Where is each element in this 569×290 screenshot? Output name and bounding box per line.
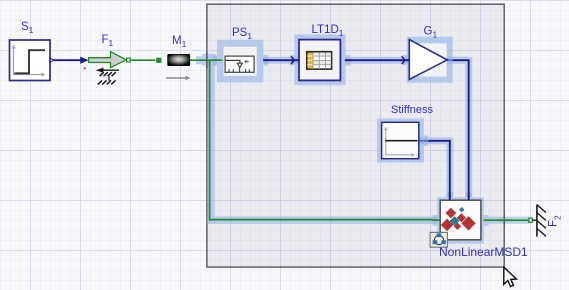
F2 port bracket xyxy=(529,218,532,222)
stub to wall xyxy=(532,219,537,221)
LT1D1 table icon xyxy=(307,52,332,69)
label PS1 xyxy=(232,27,252,41)
mouse cursor xyxy=(504,267,517,286)
lookup table LT1D1 block xyxy=(299,40,340,81)
label S1 xyxy=(21,21,34,35)
position sensor PS1 icon xyxy=(225,56,254,72)
wire: G1 output down to NonLinearMSD1 top-right port (signal) xyxy=(447,60,469,200)
NonLinearMSD1 diamond icon xyxy=(441,207,476,231)
mass M1 xyxy=(168,54,190,65)
wire overdraw at port tabs xyxy=(210,56,489,220)
wire glow: G1 down to NonLinearMSD1 xyxy=(447,57,469,197)
F1 support ground xyxy=(96,68,119,85)
wire: branch junction down and right to NonLinearMSD1 left port xyxy=(210,60,438,219)
position sensor PS1 selection highlight xyxy=(212,40,268,83)
label Stiffness xyxy=(391,104,433,116)
M1 motion arrow xyxy=(166,76,191,81)
Stiffness constant block selection highlight xyxy=(377,119,429,163)
wire glow: NonLinearMSD1 to F2 wall xyxy=(488,217,530,224)
label M1 xyxy=(172,35,187,49)
M1 left flange port xyxy=(156,58,161,63)
wire glow: LT1D1 to G1 xyxy=(345,57,409,64)
S1 output port xyxy=(50,58,54,62)
svg-text:NonLinearMSD1: NonLinearMSD1 xyxy=(439,245,528,259)
label F2 (rotated) xyxy=(548,215,563,227)
fixed wall F2 xyxy=(537,205,546,237)
wire: Stiffness output down to NonLinearMSD1 top-left port (signal) xyxy=(419,141,450,201)
NonLinearMSD1 subsystem block xyxy=(440,200,481,240)
label G1 xyxy=(424,26,438,40)
wire: LT1D1 to G1 (signal) xyxy=(346,59,410,61)
force source F1 xyxy=(89,52,127,68)
F1 output port xyxy=(127,58,131,62)
wire glow: Stiffness down to NonLinearMSD1 xyxy=(419,138,450,198)
Stiffness constant block xyxy=(382,122,419,158)
wire: S1 output to F1 input (signal) xyxy=(54,57,89,64)
wire glow: M1 to PS1 and branch down to NonLinearMSD1 xyxy=(196,54,438,220)
step source S1 xyxy=(10,40,51,81)
wire glow: PS1 to LT1D1 xyxy=(263,57,299,64)
NonLinearMSD1 selection highlight xyxy=(433,192,489,243)
svg-text:Stiffness: Stiffness xyxy=(391,104,433,116)
stray red dot xyxy=(84,67,86,69)
subsystem boundary box xyxy=(207,4,504,267)
wire: NonLinearMSD1 right port to F2 xyxy=(484,219,529,221)
shared subsystem badge xyxy=(430,232,447,247)
gain G1 triangle xyxy=(409,40,447,80)
lookup table LT1D1 selection highlight xyxy=(290,34,350,85)
wire: M1 to PS1 xyxy=(189,59,226,61)
wire: PS1 to LT1D1 (signal) xyxy=(263,59,299,61)
subsystem border overdraw at wire crossings xyxy=(207,52,511,228)
gain G1 selection highlight xyxy=(403,37,453,83)
label NonLinearMSD1 xyxy=(439,245,528,259)
wire: F1 to M1 (translational) xyxy=(130,59,155,61)
label F1 xyxy=(102,34,114,48)
label LT1D1 xyxy=(312,24,344,38)
